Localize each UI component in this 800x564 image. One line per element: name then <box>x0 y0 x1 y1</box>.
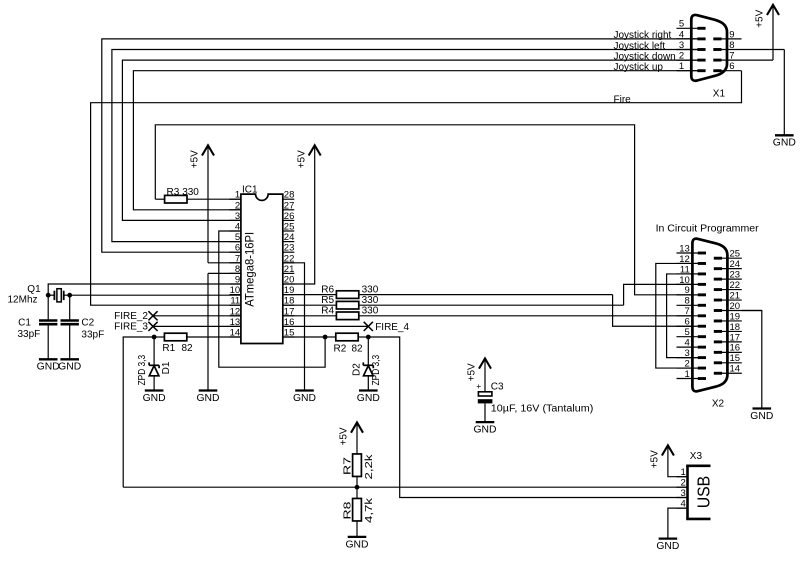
X1 pin 6 (right) <box>713 61 741 72</box>
svg-text:8: 8 <box>729 40 734 51</box>
X1 pin 5 (left) <box>677 19 706 30</box>
node junction at crystal left <box>46 293 51 298</box>
zener diode D1 ZPD 3,3 <box>137 337 172 391</box>
wire R6 to X2 pin 6 <box>613 295 699 327</box>
resistor R6 330 <box>283 284 613 298</box>
wire net Joystick right: X1 pin 4 to IC1 pin 6 <box>102 39 699 252</box>
IC1 pin 15 stub <box>283 328 295 339</box>
capacitor C3 10uF polarized <box>476 358 593 422</box>
resistor R3 330 <box>155 187 241 203</box>
wire D- rail to USB pin 2 <box>123 486 687 488</box>
svg-text:10µF, 16V (Tantalum): 10µF, 16V (Tantalum) <box>491 403 594 414</box>
IC1 pin 28 stub <box>283 190 295 201</box>
node junction R7/R8 <box>355 485 360 490</box>
+5V supply <box>755 5 779 28</box>
X2 pin 20 (right) <box>714 301 762 312</box>
svg-text:9: 9 <box>729 29 734 40</box>
svg-text:GND: GND <box>773 138 796 149</box>
svg-text:14: 14 <box>730 364 741 375</box>
X1 pin 2 (left) <box>677 51 706 62</box>
svg-text:10: 10 <box>230 285 241 296</box>
crystal Q1 12Mhz <box>8 284 70 306</box>
wire IC1 pin 10 to crystal <box>70 294 241 296</box>
wire X2 pin 20 to GND <box>742 311 762 409</box>
svg-text:Joystick up: Joystick up <box>614 62 664 73</box>
svg-text:23: 23 <box>284 243 295 254</box>
X2 pin 4 (left) <box>677 338 707 349</box>
X2 pin 24 (right) <box>714 259 742 270</box>
IC1 pin 26 stub <box>283 211 295 222</box>
connector X3 USB body <box>686 466 710 519</box>
svg-text:4: 4 <box>685 338 690 349</box>
X1 pin 1 (left) <box>677 61 706 72</box>
svg-text:330: 330 <box>362 295 379 306</box>
IC1 pin 10 stub <box>230 285 241 296</box>
svg-text:330: 330 <box>362 306 379 317</box>
IC1 pin 6 stub <box>230 243 241 254</box>
wire +5V to IC1 pin 7 <box>208 145 241 262</box>
X2 reference label <box>712 398 725 409</box>
X2 pin 13 (left) <box>677 243 707 254</box>
IC1 pin 4 stub <box>230 222 241 233</box>
X3 pin 2 <box>677 478 688 489</box>
X1 pin 9 (right) <box>713 29 741 40</box>
X3 pin 1 <box>677 467 688 478</box>
svg-text:7: 7 <box>729 51 734 62</box>
svg-text:+5V: +5V <box>296 150 307 168</box>
resistor R2 82 <box>325 333 368 354</box>
IC1 pin 18 stub <box>283 296 295 307</box>
svg-text:19: 19 <box>730 311 741 322</box>
svg-text:IC1: IC1 <box>242 184 258 195</box>
wire IC1 pin 4 to R2 left node (USB D+) <box>219 231 325 367</box>
svg-text:FIRE_3: FIRE_3 <box>114 322 148 333</box>
svg-text:5: 5 <box>685 327 690 338</box>
svg-text:6: 6 <box>729 61 734 72</box>
X3 pin 3 <box>677 488 688 499</box>
IC1 pin 2 stub <box>230 200 241 211</box>
IC1 pin 16 stub <box>283 317 295 328</box>
IC1 pin 8 stub <box>230 264 241 275</box>
resistor R8 4,7k <box>343 497 375 537</box>
wire X3 pin 4 to GND <box>668 508 688 538</box>
svg-text:GND: GND <box>58 362 81 373</box>
svg-text:+5V: +5V <box>467 363 478 381</box>
svg-text:Q1: Q1 <box>27 284 41 295</box>
svg-text:17: 17 <box>730 332 741 343</box>
svg-text:GND: GND <box>474 425 497 436</box>
X2 pin 25 (right) <box>714 249 742 260</box>
svg-text:23: 23 <box>730 270 741 281</box>
X2 pin 3 (left) <box>677 348 707 359</box>
+5V supply at IC1 pin 20 <box>296 145 320 168</box>
resistor R5 330 <box>283 295 624 309</box>
svg-text:4,7k: 4,7k <box>364 497 375 523</box>
node junction R1/D1 <box>152 335 157 340</box>
connector X2 DB25 In Circuit Programmer body <box>692 239 727 392</box>
svg-text:33pF: 33pF <box>18 329 41 340</box>
IC1 reference label <box>242 184 258 195</box>
svg-text:+5V: +5V <box>650 450 661 468</box>
net FIRE_4 open stub at IC1 pin 16 <box>283 322 410 333</box>
X2 pin 7 (left) <box>677 306 707 317</box>
node junction at crystal right <box>67 293 72 298</box>
ground at C2 <box>58 359 81 372</box>
svg-text:11: 11 <box>230 296 240 307</box>
svg-text:27: 27 <box>284 200 295 211</box>
svg-text:12Mhz: 12Mhz <box>8 295 38 306</box>
IC1 pin 21 stub <box>283 264 295 275</box>
svg-text:Joystick right: Joystick right <box>614 30 672 41</box>
IC1 pin 7 stub <box>230 253 241 264</box>
ground at C1 <box>37 359 60 372</box>
svg-text:Fire: Fire <box>614 94 632 105</box>
svg-text:13: 13 <box>679 243 690 254</box>
svg-text:GND: GND <box>143 393 166 404</box>
X2 pin 21 (right) <box>714 290 742 301</box>
IC1 value label ATmega8-16PI <box>242 232 256 307</box>
net label Joystick down <box>614 51 676 62</box>
zener diode D2 ZPD 3,3 <box>352 337 383 391</box>
IC1 pin 25 stub <box>283 222 295 233</box>
IC1 pin 20 stub <box>283 275 295 286</box>
resistor R4 330 <box>283 306 699 320</box>
IC1 pin 12 stub <box>230 306 241 317</box>
net label Fire <box>614 94 632 105</box>
wire X2 pin 11 to pin 3 loop <box>667 274 699 358</box>
svg-text:5: 5 <box>679 19 684 30</box>
svg-text:28: 28 <box>284 190 295 201</box>
X1 pin 7 (right) <box>713 51 773 62</box>
X2 pin 2 (left) <box>677 358 707 369</box>
svg-text:C2: C2 <box>81 317 94 328</box>
svg-text:25: 25 <box>284 222 295 233</box>
X2 pin 5 (left) <box>677 327 707 338</box>
svg-text:5: 5 <box>235 232 240 243</box>
wire +5V to X1 pin 7 <box>772 5 774 60</box>
capacitor C1 33pF <box>18 295 58 359</box>
svg-text:2: 2 <box>235 200 240 211</box>
wire IC1 pin 8 to GND <box>208 273 241 390</box>
IC1 pin 14 stub <box>230 328 241 339</box>
wire R3 to X2 pin 9 (reset / programmer net) <box>155 125 698 295</box>
svg-text:GND: GND <box>197 393 220 404</box>
capacitor C2 33pF <box>61 295 105 359</box>
svg-text:D2: D2 <box>352 363 363 376</box>
ground at D1 <box>143 391 166 404</box>
svg-text:16: 16 <box>730 343 741 354</box>
svg-text:GND: GND <box>293 393 316 404</box>
svg-text:18: 18 <box>730 322 741 333</box>
X2 pin 1 (left) <box>677 369 707 380</box>
svg-text:Joystick left: Joystick left <box>614 41 666 52</box>
svg-text:82: 82 <box>182 343 194 354</box>
wire R2 to USB pin 3 (D+) <box>368 337 687 498</box>
X2 pin 10 (left) <box>677 275 707 286</box>
X2 pin 16 (right) <box>714 343 742 354</box>
svg-text:GND: GND <box>37 362 60 373</box>
svg-text:ZPD 3,3: ZPD 3,3 <box>137 355 148 386</box>
svg-text:R8: R8 <box>343 501 354 520</box>
wire net Joystick left: X1 pin 3 to IC1 pin 5 <box>112 50 699 242</box>
svg-text:ATmega8-16PI: ATmega8-16PI <box>242 232 256 307</box>
wire +5V to X3 pin 1 <box>668 445 688 476</box>
svg-text:21: 21 <box>284 264 295 275</box>
wire +5V to IC1 pin 20 <box>283 145 315 284</box>
svg-text:R4: R4 <box>321 306 334 317</box>
X3 reference label <box>690 451 703 462</box>
net label Joystick up <box>614 62 664 73</box>
wire net Joystick down: X1 pin 2 to IC1 pin 3 <box>122 60 698 220</box>
X2 pin 22 (right) <box>714 280 742 291</box>
X2 pin 11 (left) <box>677 264 707 275</box>
+5V supply at R7 <box>339 423 363 446</box>
X1 pin 3 (left) <box>677 40 706 51</box>
svg-text:21: 21 <box>730 290 741 301</box>
svg-text:FIRE_2: FIRE_2 <box>114 311 148 322</box>
svg-text:D1: D1 <box>161 361 172 374</box>
wire net Fire: X1 pin 6 to IC1 pin 11 <box>91 71 742 306</box>
+5V supply at IC1 pin 7 <box>190 145 214 168</box>
IC1 pin 27 stub <box>283 200 295 211</box>
X2 pin 15 (right) <box>714 353 742 364</box>
X2 pin 6 (left) <box>677 317 707 328</box>
svg-text:+5V: +5V <box>339 427 350 445</box>
wire net Joystick up: X1 pin 1 to IC1 pin 2 <box>133 71 698 210</box>
ground at C3 <box>474 422 497 435</box>
svg-text:6: 6 <box>685 317 690 328</box>
X2 pin 9 (left) <box>677 285 707 296</box>
svg-text:C1: C1 <box>18 317 31 328</box>
svg-text:R2: R2 <box>334 343 347 354</box>
svg-text:10: 10 <box>679 275 690 286</box>
ground at X1 <box>773 135 796 148</box>
svg-text:33pF: 33pF <box>81 329 104 340</box>
node junction R2 left <box>323 335 328 340</box>
ground at R8 <box>346 537 369 550</box>
svg-text:1: 1 <box>685 369 690 380</box>
svg-text:R5: R5 <box>321 295 334 306</box>
svg-text:22: 22 <box>730 280 741 291</box>
IC1 pin 5 stub <box>230 232 241 243</box>
svg-text:+: + <box>476 381 481 391</box>
IC1 pin 11 stub <box>230 296 241 307</box>
X2 pin 19 (right) <box>714 311 742 322</box>
net label Joystick right <box>614 30 672 41</box>
svg-text:8: 8 <box>685 296 690 307</box>
IC1 pin 17 stub <box>283 306 295 317</box>
connector X1 DB9 joystick port body <box>691 15 727 81</box>
IC1 pin 22 stub <box>283 253 295 264</box>
X2 pin 12 (left) <box>677 254 707 265</box>
wire IC1 pin 15 to R2 <box>283 336 325 338</box>
svg-text:3: 3 <box>681 488 686 499</box>
X2 pin 17 (right) <box>714 332 742 343</box>
svg-text:C3: C3 <box>491 382 504 393</box>
IC1 pin 24 stub <box>283 232 295 243</box>
IC1 pin 19 stub <box>283 285 295 296</box>
wire R1 node to bottom USB rail <box>123 337 154 487</box>
svg-text:FIRE_4: FIRE_4 <box>375 322 409 333</box>
wire IC1 pin 22 to GND <box>283 263 305 391</box>
svg-text:330: 330 <box>362 284 379 295</box>
svg-text:GND: GND <box>346 539 369 550</box>
svg-text:Joystick down: Joystick down <box>614 51 676 62</box>
X3 pin 4 <box>677 499 688 510</box>
svg-text:GND: GND <box>656 541 679 552</box>
svg-text:R6: R6 <box>321 284 334 295</box>
wire X2 pin 12 to pin 2 loop <box>656 263 699 368</box>
svg-text:15: 15 <box>730 353 741 364</box>
svg-text:+5V: +5V <box>190 150 201 168</box>
svg-text:+5V: +5V <box>755 9 766 27</box>
X2 title label <box>656 224 760 235</box>
svg-text:25: 25 <box>730 249 741 260</box>
svg-text:6: 6 <box>235 243 240 254</box>
IC1 pin 3 stub <box>230 211 241 222</box>
ground at X2 pin 20 <box>750 409 773 422</box>
svg-text:X3: X3 <box>690 451 703 462</box>
svg-text:24: 24 <box>730 259 741 270</box>
net label Joystick left <box>614 41 666 52</box>
ground at X3 <box>656 539 679 552</box>
X2 pin 18 (right) <box>714 322 742 333</box>
X1 pin 4 (left) <box>677 29 706 40</box>
svg-text:2,2k: 2,2k <box>364 453 375 479</box>
ground at IC1 pin 8 <box>197 391 220 404</box>
svg-text:R7: R7 <box>343 456 354 475</box>
svg-text:In Circuit Programmer: In Circuit Programmer <box>656 224 760 235</box>
svg-text:7: 7 <box>685 306 690 317</box>
X2 pin 8 (left) <box>677 296 707 307</box>
node junction R2 right / D2 <box>366 335 371 340</box>
IC1 pin 13 stub <box>230 317 241 328</box>
svg-text:3: 3 <box>235 211 240 222</box>
IC1 pin 23 stub <box>283 243 295 254</box>
svg-text:330: 330 <box>182 187 199 198</box>
svg-text:X2: X2 <box>712 398 725 409</box>
X3 value label USB <box>694 476 714 509</box>
svg-text:82: 82 <box>352 343 364 354</box>
ground at IC1 pin 22 <box>293 391 316 404</box>
IC1 pin 9 stub <box>230 275 241 286</box>
+5V supply at C3 <box>467 358 491 381</box>
svg-text:ZPD 3,3: ZPD 3,3 <box>371 355 382 386</box>
svg-text:GND: GND <box>750 411 773 422</box>
X1 pin 8 (right) <box>713 40 784 51</box>
ground at D2 <box>357 391 380 404</box>
X2 pin 14 (right) <box>714 364 742 375</box>
svg-text:R1: R1 <box>162 343 175 354</box>
net FIRE_2 open stub at IC1 pin 12 <box>114 311 241 322</box>
resistor R1 82 <box>154 333 241 354</box>
svg-text:9: 9 <box>685 285 690 296</box>
wire X1 pin 8 to GND <box>783 50 785 136</box>
op IC1 ATmega8-16PI DIP-28 body with notch <box>241 194 283 343</box>
svg-text:X1: X1 <box>713 88 726 99</box>
X1 reference label <box>713 88 726 99</box>
svg-text:USB: USB <box>694 476 714 509</box>
resistor R7 2,2k <box>343 423 375 499</box>
svg-text:R3: R3 <box>167 187 180 198</box>
svg-text:24: 24 <box>284 232 295 243</box>
+5V supply at X3 <box>650 445 674 468</box>
svg-text:26: 26 <box>284 211 295 222</box>
svg-text:20: 20 <box>730 301 741 312</box>
IC1 pin 1 stub <box>230 190 241 201</box>
wire R5 to X2 pin 10 <box>624 284 699 305</box>
X2 pin 23 (right) <box>714 270 742 281</box>
wire IC1 pin 9 to crystal <box>48 284 241 295</box>
net FIRE_3 open stub at IC1 pin 13 <box>114 322 241 333</box>
svg-text:GND: GND <box>357 393 380 404</box>
